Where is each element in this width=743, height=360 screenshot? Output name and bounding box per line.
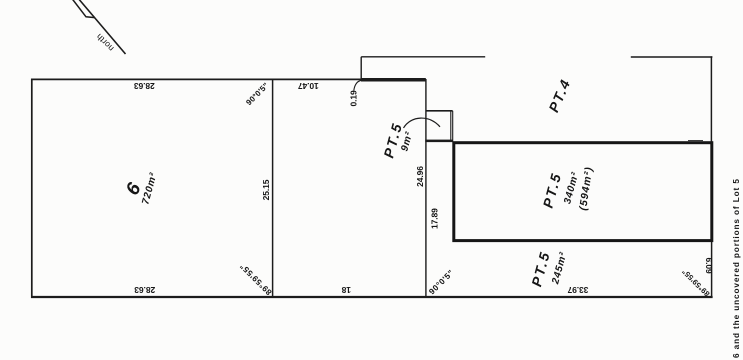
wire thick top segment (double boundary) [361,78,426,82]
svg-text:28.63: 28.63 [134,285,155,295]
PT.5 340m2 thick parcel outline [454,143,712,241]
PT.4 left notch edge [360,57,362,80]
PT.4 right edge [710,56,712,141]
wire plan bottom edge [31,296,713,298]
wire parcel top edge [31,78,426,80]
PT.5 9m2 square top [426,110,453,112]
wire strip right boundary [425,79,427,297]
PT.5 9m2 square right double edge [450,111,452,142]
svg-text:0.19: 0.19 [348,90,358,107]
PT.4 top edge segment 2 [631,56,713,58]
PT.4 thin bottom tick [688,140,703,142]
svg-text:6.09: 6.09 [704,258,714,275]
PT.4 top edge segment 1 [361,56,485,58]
svg-text:6 and the uncovered portions o: 6 and the uncovered portions of Lot 5 [732,178,741,358]
svg-text:17.89: 17.89 [430,208,440,229]
svg-text:25.15: 25.15 [261,179,271,200]
svg-text:10.47: 10.47 [298,81,319,91]
svg-text:24.96: 24.96 [415,166,425,187]
wire right edge below thick parcel [711,242,713,298]
svg-text:28.63: 28.63 [134,81,155,91]
wire parcel left edge [31,79,33,298]
leader curve 0.19 [354,80,362,90]
north arrow shaft [75,0,126,54]
north arrow barb [70,0,95,18]
leader curve 9m2 [404,118,441,128]
PT.5 9m2 square bottom thick [425,140,453,143]
wire lot 6 right boundary [272,79,274,297]
svg-text:33.97: 33.97 [567,285,588,295]
svg-text:18: 18 [341,285,351,295]
